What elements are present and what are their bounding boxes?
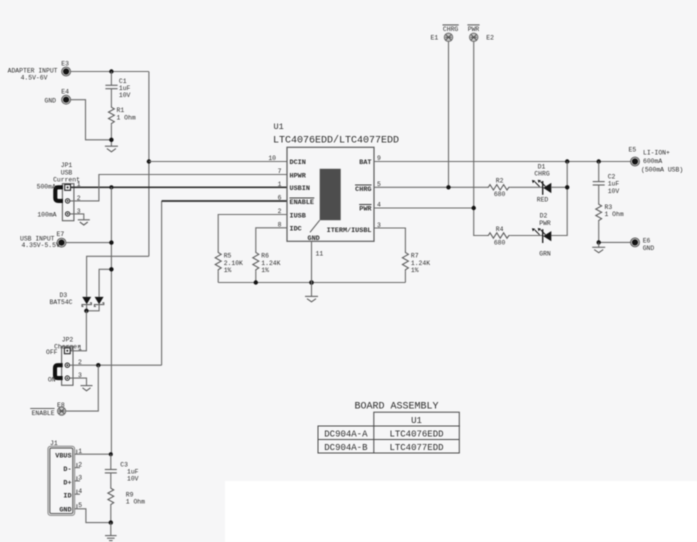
svg-text:USB: USB bbox=[61, 169, 73, 176]
junction PWR/E2 bbox=[472, 206, 476, 210]
ground under R1 bbox=[105, 146, 118, 152]
resistor R5 bbox=[215, 251, 221, 271]
svg-text:RED: RED bbox=[537, 196, 549, 203]
wire D3 cathode to JP2 pin1 bbox=[70, 311, 86, 351]
junction C2 on BAT bbox=[597, 159, 601, 163]
svg-text:GND: GND bbox=[308, 235, 320, 243]
U1 pad to GND leader bbox=[310, 220, 320, 232]
label PWR with overline (E2) bbox=[467, 25, 479, 33]
wire R3 to ground/E6 bbox=[599, 222, 631, 243]
JP2 pin 3 pad bbox=[65, 376, 69, 380]
resistor R4 bbox=[487, 233, 510, 238]
svg-text:E2: E2 bbox=[486, 35, 494, 42]
label CHRG with overline (E1) bbox=[443, 25, 459, 33]
wire R7 to rail bbox=[404, 271, 406, 282]
svg-text:DC904A-B: DC904A-B bbox=[324, 443, 368, 453]
label R5 2.10K 1% bbox=[224, 253, 243, 275]
wire E2 to PWR line and D2 row bbox=[474, 42, 487, 236]
wire JP1 pin3 to ground bbox=[70, 214, 84, 220]
wire to earth ground bbox=[110, 523, 112, 536]
svg-text:E6: E6 bbox=[643, 238, 651, 245]
wire R9 to ground node bbox=[110, 506, 112, 523]
wire U1 GND pin 11 bbox=[311, 241, 313, 296]
label C3 1uF 10V bbox=[120, 461, 138, 482]
label R3 1 Ohm bbox=[605, 204, 624, 218]
label E6 GND bbox=[643, 238, 655, 252]
capacitor C2 bbox=[593, 162, 605, 204]
JP1 pin 1 pad bbox=[65, 185, 71, 191]
svg-text:C3: C3 bbox=[120, 461, 128, 468]
svg-text:E5: E5 bbox=[629, 147, 637, 154]
svg-text:10V: 10V bbox=[119, 92, 131, 99]
svg-text:PWR: PWR bbox=[539, 220, 551, 227]
svg-text:JP1: JP1 bbox=[61, 162, 73, 169]
junction E1/CHRG bbox=[446, 185, 450, 189]
capacitor C1 bbox=[105, 72, 117, 107]
svg-text:2.10K: 2.10K bbox=[224, 260, 243, 267]
svg-text:1uF: 1uF bbox=[119, 85, 131, 92]
label R9 1 Ohm bbox=[126, 491, 145, 505]
svg-text:R1: R1 bbox=[117, 107, 125, 114]
label D1 CHRG bbox=[534, 163, 550, 177]
svg-text:100mA: 100mA bbox=[37, 212, 56, 219]
svg-text:CHRG: CHRG bbox=[534, 171, 550, 178]
wire DCIN to U1 pin 10 bbox=[149, 161, 287, 163]
svg-text:CHRG: CHRG bbox=[443, 26, 459, 33]
svg-text:1 Ohm: 1 Ohm bbox=[126, 499, 145, 506]
ground under JP1 pin 3 bbox=[78, 220, 90, 225]
svg-text:GRN: GRN bbox=[539, 250, 551, 257]
resistor R3 bbox=[596, 203, 602, 222]
svg-text:1: 1 bbox=[278, 181, 282, 188]
junction LED rail on BAT bbox=[565, 159, 569, 163]
junction J1 ground node bbox=[109, 520, 113, 524]
svg-text:1uF: 1uF bbox=[127, 468, 139, 475]
wire ENABLE to U1 (bold) bbox=[162, 200, 287, 202]
wire LED rail bbox=[551, 162, 567, 236]
svg-text:LTC4077EDD: LTC4077EDD bbox=[389, 443, 443, 453]
wire E1 to CHRG line bbox=[448, 42, 450, 188]
connector J1 body bbox=[48, 446, 75, 515]
wire ENABLE vertical to U1 pin 6 bbox=[161, 201, 163, 365]
svg-text:BOARD ASSEMBLY: BOARD ASSEMBLY bbox=[354, 402, 438, 413]
svg-text:1: 1 bbox=[78, 448, 82, 455]
svg-text:500mA: 500mA bbox=[37, 184, 56, 191]
svg-text:4: 4 bbox=[78, 488, 82, 495]
svg-text:GND: GND bbox=[44, 97, 56, 104]
junction R6 rail bbox=[254, 280, 258, 284]
svg-text:C2: C2 bbox=[608, 173, 616, 180]
wire JP1 pin1 to U1 USBIN (bold) bbox=[70, 186, 287, 188]
ground under U1 bbox=[305, 296, 318, 301]
wire D1 to rail bbox=[551, 186, 567, 188]
svg-text:10: 10 bbox=[268, 155, 276, 162]
svg-text:1.24K: 1.24K bbox=[411, 260, 430, 267]
label R6 1.24K 1% bbox=[261, 253, 280, 275]
svg-text:HPWR: HPWR bbox=[290, 172, 307, 180]
svg-text:R6: R6 bbox=[261, 253, 269, 260]
JP2 pin 2 pad bbox=[65, 363, 69, 367]
svg-text:E7: E7 bbox=[57, 231, 65, 238]
table U1 header cell bbox=[374, 412, 460, 426]
svg-text:1uF: 1uF bbox=[608, 181, 620, 188]
wire R2 to D1 bbox=[510, 186, 542, 188]
LED D2 bbox=[532, 228, 551, 243]
svg-text:1%: 1% bbox=[224, 267, 232, 274]
label ENABLE with overline bbox=[30, 409, 55, 417]
wire ground rail bbox=[218, 282, 405, 284]
J1 pin 2 stub bbox=[75, 463, 80, 468]
svg-text:680: 680 bbox=[494, 191, 506, 198]
svg-text:1 Ohm: 1 Ohm bbox=[605, 211, 624, 218]
terminal E6 bbox=[631, 238, 640, 247]
junction E6 ground bbox=[597, 240, 601, 244]
svg-text:3: 3 bbox=[78, 475, 82, 482]
svg-text:LTC4076EDD/LTC4077EDD: LTC4076EDD/LTC4077EDD bbox=[273, 135, 399, 147]
wire E3 net vertical down to DCIN and D3 bbox=[148, 72, 150, 257]
svg-text:R3: R3 bbox=[605, 204, 613, 211]
junction at C1 top bbox=[109, 69, 113, 73]
wire U1 IDC to R6 bbox=[256, 228, 287, 251]
svg-text:OFF: OFF bbox=[46, 349, 58, 356]
label R7 1.24K 1% bbox=[411, 253, 430, 275]
svg-text:600mA: 600mA bbox=[643, 158, 662, 165]
label USB INPUT 4.35V-5.5V bbox=[20, 235, 60, 249]
svg-text:ON: ON bbox=[48, 377, 56, 384]
wire R5 to rail bbox=[217, 271, 219, 282]
wire U1 BAT to E5 bbox=[374, 161, 631, 163]
junction DCIN branch bbox=[147, 159, 151, 163]
svg-text:R9: R9 bbox=[126, 491, 134, 498]
terminal E8 bbox=[58, 407, 66, 415]
svg-text:R4: R4 bbox=[496, 226, 504, 233]
J1 pin 1 stub and wire to VBUS node bbox=[75, 450, 111, 455]
wire U1 PWR to E2 column bbox=[374, 207, 474, 209]
svg-text:1: 1 bbox=[78, 345, 82, 352]
junction D1 rail bbox=[565, 185, 569, 189]
U1 pin label CHRG with overline bbox=[355, 185, 372, 194]
svg-text:LI-ION+: LI-ION+ bbox=[643, 149, 670, 156]
wire JP2 pin3 to ground bbox=[70, 378, 87, 386]
svg-text:DCIN: DCIN bbox=[290, 159, 306, 167]
ground under JP2 pin 3 bbox=[81, 386, 93, 391]
label C2 1uF 10V bbox=[608, 173, 620, 194]
svg-text:4.5V-6V: 4.5V-6V bbox=[21, 75, 48, 82]
terminal E4 bbox=[62, 95, 71, 104]
svg-text:D1: D1 bbox=[538, 163, 546, 170]
J1 pin 5 stub and wire to ground node bbox=[75, 504, 111, 522]
J1 pin 4 stub bbox=[75, 490, 80, 495]
resistor R1 bbox=[109, 106, 115, 125]
svg-text:ENABLE: ENABLE bbox=[32, 410, 55, 417]
junction E8 branch bbox=[96, 363, 100, 367]
junction D3 branch bbox=[109, 267, 113, 271]
terminal E7 bbox=[57, 238, 66, 247]
svg-text:PWR: PWR bbox=[359, 206, 372, 214]
svg-text:5: 5 bbox=[78, 502, 82, 509]
diode D3 right half (BAT54C) bbox=[94, 297, 103, 307]
svg-text:1%: 1% bbox=[411, 267, 419, 274]
junction E7 bbox=[109, 240, 113, 244]
svg-text:ID: ID bbox=[63, 493, 71, 501]
JP2 pin 1 pad bbox=[64, 348, 70, 354]
svg-text:D+: D+ bbox=[63, 479, 71, 487]
svg-text:LTC4076EDD: LTC4076EDD bbox=[389, 430, 443, 440]
svg-text:E3: E3 bbox=[61, 61, 69, 68]
wire E8 to JP2 pin2 net bbox=[66, 365, 98, 411]
label R2 680 bbox=[494, 178, 506, 198]
earth ground under J1 bbox=[105, 536, 117, 541]
wire USBIN net vertical down to VBUS bbox=[110, 187, 112, 454]
svg-text:PWR: PWR bbox=[468, 26, 480, 33]
terminal E1 bbox=[444, 33, 452, 41]
wire adapter net to D3 left anode bbox=[87, 256, 149, 297]
svg-text:2: 2 bbox=[78, 461, 82, 468]
wire JP1 pin2 to U1 HPWR bbox=[70, 175, 287, 201]
svg-text:E4: E4 bbox=[61, 89, 69, 96]
svg-text:11: 11 bbox=[316, 251, 324, 258]
svg-text:680: 680 bbox=[494, 239, 506, 246]
U1 pin label PWR with overline bbox=[359, 205, 372, 214]
junction VBUS node bbox=[109, 452, 113, 456]
terminal E5 bbox=[631, 157, 640, 166]
svg-text:(500mA USB): (500mA USB) bbox=[641, 166, 683, 173]
U1 exposed pad bbox=[320, 169, 341, 220]
svg-text:ENABLE: ENABLE bbox=[290, 199, 314, 207]
junction center rail bbox=[309, 280, 314, 285]
ground under R3 bbox=[592, 242, 605, 252]
wire R1 to ground bbox=[110, 125, 112, 146]
svg-text:BAT: BAT bbox=[359, 159, 371, 167]
wire R6 to rail bbox=[255, 271, 257, 282]
svg-text:1 Ohm: 1 Ohm bbox=[117, 114, 136, 121]
svg-text:GND: GND bbox=[59, 506, 71, 514]
svg-text:C1: C1 bbox=[119, 78, 127, 85]
label JP2 Charger bbox=[54, 336, 81, 350]
connector JP1 body bbox=[62, 184, 74, 221]
wire JP2 pin2 to ENABLE column bbox=[70, 364, 162, 366]
svg-text:10V: 10V bbox=[608, 188, 620, 195]
svg-text:R7: R7 bbox=[411, 253, 419, 260]
svg-text:E1: E1 bbox=[431, 35, 439, 42]
svg-text:ADAPTER INPUT: ADAPTER INPUT bbox=[8, 67, 58, 74]
svg-text:DC904A-A: DC904A-A bbox=[324, 430, 368, 440]
terminal E2 bbox=[470, 33, 478, 41]
svg-text:IDC: IDC bbox=[290, 226, 302, 234]
wire U1 CHRG to R2 bbox=[374, 186, 487, 188]
svg-text:U1: U1 bbox=[274, 122, 284, 132]
svg-text:CHRG: CHRG bbox=[355, 186, 371, 194]
junction E4/R1 ground bbox=[109, 138, 113, 142]
svg-text:JP2: JP2 bbox=[62, 336, 74, 343]
label R4 680 bbox=[494, 226, 506, 247]
wire E3 to C1 node bbox=[70, 71, 148, 73]
JP1 shunt on pins 1-2 bbox=[55, 187, 63, 201]
label JP1 USB Current bbox=[53, 162, 80, 184]
svg-text:1.24K: 1.24K bbox=[261, 260, 280, 267]
J1 pin 3 stub bbox=[75, 476, 80, 481]
svg-text:U1: U1 bbox=[411, 416, 422, 426]
label ADAPTER INPUT 4.5V-6V bbox=[8, 67, 58, 81]
label LI-ION+ 600mA (500mA USB) bbox=[641, 149, 683, 173]
resistor R6 bbox=[253, 251, 259, 271]
label R1 1 Ohm bbox=[117, 107, 136, 121]
wire R4 to D2 bbox=[510, 235, 542, 237]
label D3 BAT54C bbox=[50, 292, 73, 306]
svg-text:D3: D3 bbox=[60, 292, 68, 299]
table body bbox=[318, 426, 459, 453]
label C1 1uF 10V bbox=[119, 78, 131, 99]
svg-text:D2: D2 bbox=[540, 213, 548, 220]
U1 body bbox=[287, 147, 374, 241]
diode D3 left half (BAT54C) bbox=[82, 297, 91, 307]
junction USBIN column bbox=[109, 185, 113, 189]
svg-text:R2: R2 bbox=[496, 178, 504, 185]
JP1 pin 3 pad bbox=[65, 212, 69, 216]
LED D1 bbox=[532, 180, 551, 195]
svg-text:R5: R5 bbox=[224, 253, 232, 260]
wire D3 common cathode bbox=[87, 305, 100, 311]
svg-text:E8: E8 bbox=[57, 402, 65, 409]
U1 pin label ENABLE with overline bbox=[290, 198, 315, 207]
svg-text:GND: GND bbox=[643, 245, 655, 252]
wire branch to D3 right anode bbox=[99, 269, 111, 297]
resistor R2 bbox=[487, 185, 510, 190]
svg-text:USBIN: USBIN bbox=[290, 185, 310, 193]
svg-text:D-: D- bbox=[63, 466, 71, 474]
svg-text:10V: 10V bbox=[127, 475, 139, 482]
svg-text:7: 7 bbox=[278, 168, 282, 175]
capacitor C3 bbox=[105, 454, 117, 487]
JP1 pin 2 pad bbox=[65, 199, 69, 203]
svg-text:6: 6 bbox=[278, 195, 282, 202]
resistor R9 bbox=[108, 487, 114, 506]
label D2 PWR bbox=[539, 213, 551, 227]
wire U1 ITERM/IUSBL to R7 bbox=[374, 228, 405, 251]
resistor R7 bbox=[402, 251, 408, 271]
connector JP2 body bbox=[62, 347, 73, 386]
junction D3 cathode bbox=[84, 309, 88, 313]
wire U1 IUSB to R5 bbox=[218, 215, 287, 252]
svg-text:BAT54C: BAT54C bbox=[50, 299, 73, 306]
svg-text:4.35V-5.5V: 4.35V-5.5V bbox=[21, 242, 60, 249]
JP2 shunt on pins 2-3 bbox=[55, 365, 63, 378]
svg-text:ITERM/IUSBL: ITERM/IUSBL bbox=[327, 227, 372, 235]
wire E4 to ground node bbox=[70, 100, 111, 140]
svg-text:IUSB: IUSB bbox=[290, 212, 306, 220]
wire E7 to USBIN column bbox=[66, 242, 112, 244]
terminal E3 bbox=[62, 67, 71, 76]
svg-text:VBUS: VBUS bbox=[55, 453, 71, 461]
svg-text:1%: 1% bbox=[261, 267, 269, 274]
